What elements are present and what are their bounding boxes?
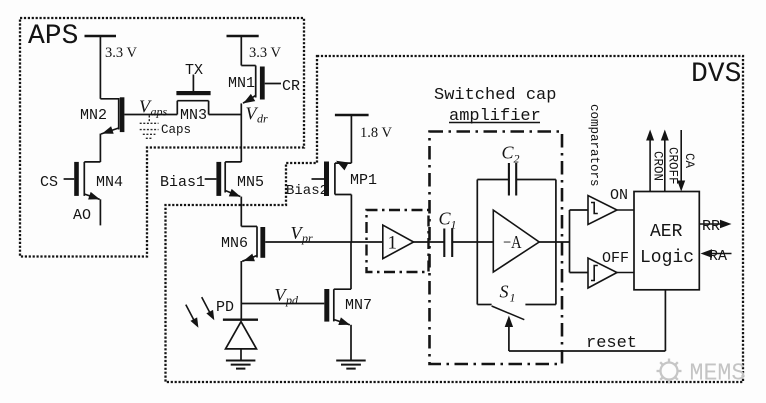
svg-text:DVS: DVS <box>691 59 741 90</box>
supply 3.3V right <box>227 36 259 66</box>
svg-text:comparators: comparators <box>587 104 601 187</box>
svg-text:Bias1: Bias1 <box>160 174 205 191</box>
transistor MP1 <box>312 162 352 197</box>
svg-text:−A: −A <box>503 231 522 252</box>
supply 1.8V <box>335 115 369 163</box>
svg-text:APS: APS <box>28 21 78 52</box>
transistor MN6 <box>241 226 265 261</box>
C1 label <box>439 209 457 232</box>
svg-text:CROFF: CROFF <box>665 147 679 185</box>
MP1 source arrow <box>334 157 349 171</box>
svg-text:Logic: Logic <box>640 248 694 268</box>
svg-text:CRON: CRON <box>651 151 665 181</box>
MN4 source arrow <box>88 192 101 203</box>
AER Logic block <box>634 192 699 290</box>
svg-text:MN6: MN6 <box>221 235 248 252</box>
node Vdr label <box>246 104 269 126</box>
svg-text:AER: AER <box>650 222 683 242</box>
wire MN3 to node Vdr <box>209 114 242 116</box>
switch S1 branch <box>477 242 556 320</box>
svg-text:1: 1 <box>510 291 516 305</box>
svg-text:aps: aps <box>151 105 168 119</box>
wire MN2 source to MN4 drain <box>99 134 101 162</box>
wire MP1 drain to Vpr node <box>350 195 352 243</box>
svg-text:ON: ON <box>610 187 628 204</box>
transistor MN3 <box>176 75 210 115</box>
switched cap amplifier box <box>430 132 563 365</box>
RR output arrow <box>699 220 731 228</box>
svg-text:MN1: MN1 <box>228 75 255 92</box>
capacitor C2 feedback branch <box>477 163 556 242</box>
svg-text:dr: dr <box>257 112 268 126</box>
supply 3.3V left <box>85 36 117 99</box>
svg-text:AO: AO <box>73 207 91 224</box>
svg-text:MN2: MN2 <box>80 107 107 124</box>
APS block border <box>20 18 304 257</box>
op-amp U2 <box>493 210 539 272</box>
svg-text:reset: reset <box>586 334 637 353</box>
svg-text:PD: PD <box>216 299 234 316</box>
RA input arrow <box>701 249 732 257</box>
wire MN7 drain up to Vpr node <box>350 242 352 289</box>
reset control arrow <box>505 316 513 352</box>
ground under MN7 <box>336 361 366 369</box>
svg-text:CA: CA <box>682 153 696 169</box>
svg-text:MN7: MN7 <box>345 297 372 314</box>
photodiode PD <box>223 320 258 361</box>
svg-text:MP1: MP1 <box>350 172 377 189</box>
C2 label <box>502 143 520 166</box>
svg-text:Bias2: Bias2 <box>286 183 328 199</box>
svg-text:2: 2 <box>514 152 520 166</box>
svg-text:OFF: OFF <box>602 250 629 267</box>
svg-text:Switched cap: Switched cap <box>434 86 556 105</box>
node Vaps label <box>139 97 168 119</box>
MN7 source arrow <box>338 317 351 328</box>
transistor MN4 <box>64 162 101 199</box>
wire MN5 source to MN6 drain <box>240 197 242 227</box>
S1 label <box>500 282 516 305</box>
light arrow 1 <box>186 305 202 330</box>
transistor MN2 <box>100 97 124 134</box>
wire MN2 gate to MN3 (node Vaps) <box>124 114 177 116</box>
wire C1 to amplifier input <box>452 241 493 243</box>
node Vpd label <box>275 285 300 307</box>
svg-text:1: 1 <box>388 233 398 254</box>
svg-text:RR: RR <box>702 218 720 235</box>
svg-text:MEMS: MEMS <box>690 360 746 387</box>
wire reset <box>509 290 666 351</box>
svg-text:CR: CR <box>282 78 300 95</box>
svg-text:1: 1 <box>451 218 457 232</box>
comparator ON <box>588 196 634 225</box>
svg-text:RA: RA <box>709 248 727 265</box>
CRON output arrow <box>646 130 654 192</box>
wire MN7 source to ground <box>350 325 352 361</box>
node Vpr label <box>291 223 314 245</box>
buffer U1 <box>383 225 414 259</box>
wire buffer output to C1 <box>414 241 445 243</box>
comparator OFF <box>588 258 634 288</box>
svg-text:pd: pd <box>285 293 299 307</box>
DVS block border <box>166 56 744 382</box>
svg-text:1.8 V: 1.8 V <box>360 125 392 141</box>
MEMS watermark logo <box>657 359 682 384</box>
light arrow 2 <box>202 297 218 322</box>
MN2 source arrow <box>101 126 114 137</box>
MN5 source arrow <box>229 189 242 200</box>
CA input arrow <box>677 130 685 192</box>
wire node Vdr rail <box>240 103 242 162</box>
wire amplifier output <box>539 241 569 243</box>
wire MN6 gate to node Vpr <box>265 241 383 243</box>
MN1 source arrow <box>241 94 255 107</box>
svg-text:3.3 V: 3.3 V <box>105 45 137 61</box>
buffer box <box>367 210 429 272</box>
transistor MN7 <box>324 289 351 325</box>
svg-text:3.3 V: 3.3 V <box>249 45 281 61</box>
wire node Vpd <box>241 303 324 305</box>
wire MN4 source to AO terminal <box>99 199 101 225</box>
svg-text:pr: pr <box>301 231 313 245</box>
CROFF output arrow <box>661 130 669 192</box>
svg-text:MN5: MN5 <box>237 174 264 191</box>
transistor MN1 <box>241 66 281 104</box>
switched cap amplifier title <box>434 86 556 126</box>
svg-text:MN4: MN4 <box>96 174 123 191</box>
svg-text:Caps: Caps <box>161 123 191 137</box>
ground under photodiode <box>226 361 256 369</box>
wire comparator input spine <box>570 210 589 273</box>
wire MN6 source to photodiode <box>240 261 242 320</box>
MN6 source arrow <box>242 254 255 265</box>
svg-text:CS: CS <box>40 174 58 191</box>
capacitor C1 <box>444 229 452 258</box>
svg-text:MN3: MN3 <box>180 107 207 124</box>
capacitor Caps (parasitic, dashed) <box>140 116 159 139</box>
transistor MN5 <box>205 162 242 197</box>
AER Logic label <box>640 222 694 268</box>
svg-text:S: S <box>500 282 509 302</box>
svg-text:TX: TX <box>185 62 203 79</box>
